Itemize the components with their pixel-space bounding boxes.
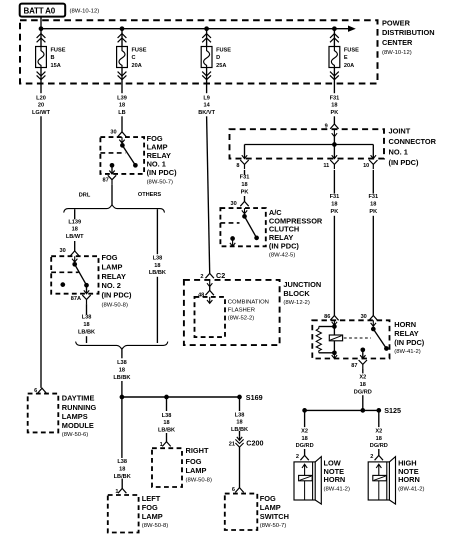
fog lamp relay no. 2 coil divider (dashed)	[51, 271, 78, 273]
svg-text:CENTER: CENTER	[382, 38, 413, 47]
svg-text:(8W-42-5): (8W-42-5)	[269, 253, 295, 259]
svg-text:LEFT: LEFT	[142, 494, 161, 503]
svg-text:COMBINATION: COMBINATION	[228, 299, 269, 305]
fog lamp relay no. 2 spare contact	[60, 282, 65, 287]
fuse E 20A	[329, 29, 359, 84]
svg-text:(IN PDC): (IN PDC)	[147, 168, 178, 177]
svg-text:(8W-41-2): (8W-41-2)	[398, 486, 424, 492]
A/C relay coil divider (dashed)	[220, 222, 239, 224]
svg-text:18: 18	[360, 382, 366, 388]
svg-text:25A: 25A	[216, 63, 226, 69]
svg-text:RUNNING: RUNNING	[62, 403, 97, 412]
svg-text:X2: X2	[359, 375, 366, 381]
node fuse C tap	[120, 26, 125, 31]
horn relay enclosure (dashed)	[312, 320, 389, 358]
svg-text:(IN PDC): (IN PDC)	[394, 338, 425, 347]
wire X2 18 DG/RD (horn relay 87 to splice S125)	[354, 369, 372, 410]
svg-text:30: 30	[59, 248, 65, 254]
pin 9 of joint connector	[325, 123, 339, 144]
svg-text:PK: PK	[331, 209, 339, 215]
label COMBINATION FLASHER (8W-52-2)	[228, 299, 269, 321]
svg-text:CONNECTOR: CONNECTOR	[389, 137, 437, 146]
svg-text:B: B	[51, 55, 55, 61]
svg-text:LAMPS: LAMPS	[62, 412, 88, 421]
svg-text:18: 18	[376, 436, 382, 442]
horn relay coil	[329, 327, 342, 353]
horn relay coil ground stub	[332, 353, 337, 359]
horn relay coil top node	[332, 324, 337, 329]
svg-text:RELAY: RELAY	[394, 329, 418, 338]
wire F31 18 PK (fuse E to joint connector pin 9)	[330, 84, 340, 125]
wire L38 18 LB/BK (merged feed to splice S169)	[113, 349, 130, 397]
svg-text:E: E	[344, 55, 348, 61]
high note horn	[368, 457, 395, 505]
svg-text:20: 20	[38, 103, 44, 109]
wire to fog lamp switch	[239, 447, 241, 488]
svg-text:NO. 1: NO. 1	[389, 147, 408, 156]
svg-text:(8W-52-2): (8W-52-2)	[228, 316, 254, 322]
svg-text:18: 18	[154, 263, 160, 269]
svg-text:(8W-50-7): (8W-50-7)	[260, 523, 286, 529]
svg-text:FOG: FOG	[102, 253, 118, 262]
svg-text:HORN: HORN	[394, 320, 416, 329]
svg-text:BATT A0: BATT A0	[24, 7, 56, 16]
right fog lamp enclosure (dashed)	[152, 448, 182, 487]
wire L38 18 LB/BK (relay 2 pin 87A to merge bracket)	[78, 304, 95, 343]
label FOG LAMP SWITCH (8W-50-7)	[260, 494, 289, 529]
fog lamp switch enclosure (dashed)	[225, 494, 257, 530]
wire L38 18 LB/BK (junction to right fog lamp)	[158, 397, 175, 442]
horn relay coil bottom node	[332, 350, 337, 355]
joint connector no. 1 enclosure (dashed)	[230, 129, 385, 158]
svg-text:LB: LB	[118, 110, 125, 116]
svg-text:20A: 20A	[132, 63, 142, 69]
pin 6 of daytime running lamps module	[34, 388, 46, 394]
svg-text:(8W-50-8): (8W-50-8)	[102, 303, 128, 309]
pin 2 of low note horn	[296, 454, 309, 460]
svg-text:18: 18	[331, 202, 337, 208]
pin 87 of fog lamp relay no. 1	[102, 175, 116, 184]
A/C compressor clutch relay enclosure (dashed)	[220, 208, 265, 246]
wire from BATT A0 to fuse bus	[40, 17, 42, 29]
label HIGH NOTE HORN (8W-41-2)	[398, 458, 424, 492]
wire L38 18 LB/BK (S169 to connector C200)	[231, 397, 248, 437]
svg-text:L38: L38	[162, 413, 172, 419]
fog lamp relay no. 1 output contact	[109, 163, 114, 174]
left fog lamp enclosure (dashed)	[108, 495, 139, 533]
svg-text:21: 21	[229, 441, 235, 447]
svg-text:(8W-50-6): (8W-50-6)	[62, 432, 88, 438]
svg-text:F31: F31	[330, 95, 340, 101]
svg-text:X2: X2	[301, 428, 308, 434]
daytime running lamps module enclosure (dashed)	[28, 394, 59, 433]
wire F31 18 PK (joint connector pin 8 to A/C relay)	[240, 170, 250, 201]
svg-text:HORN: HORN	[398, 475, 420, 484]
svg-text:6: 6	[232, 487, 235, 493]
svg-text:BLOCK: BLOCK	[283, 289, 310, 298]
node horn relay feed	[360, 408, 365, 413]
svg-text:DRL: DRL	[79, 193, 91, 199]
svg-text:BK/VT: BK/VT	[198, 110, 215, 116]
svg-text:30: 30	[230, 201, 236, 207]
svg-text:C200: C200	[246, 438, 263, 447]
pin 8 of joint connector	[236, 145, 248, 170]
power distribution center enclosure (dashed)	[20, 20, 378, 83]
pin 87 of horn relay	[351, 347, 367, 369]
svg-text:DG/RD: DG/RD	[370, 443, 388, 449]
svg-text:(8W-10-12): (8W-10-12)	[382, 50, 412, 56]
label LOW NOTE HORN (8W-41-2)	[324, 458, 350, 492]
svg-text:LAMP: LAMP	[260, 503, 281, 512]
svg-text:(8W-41-2): (8W-41-2)	[394, 349, 420, 355]
svg-text:9: 9	[325, 123, 328, 129]
splice S169	[237, 393, 262, 402]
combination flasher enclosure (dashed)	[195, 297, 226, 337]
svg-text:F31: F31	[330, 194, 340, 200]
fog lamp relay no. 2 contact armature	[72, 262, 89, 288]
svg-text:30: 30	[361, 314, 367, 320]
svg-text:FOG: FOG	[186, 457, 202, 466]
pin 48 of combination flasher	[198, 290, 214, 303]
svg-text:14: 14	[203, 103, 210, 109]
svg-text:(8W-12-2): (8W-12-2)	[283, 300, 309, 306]
svg-text:(8W-50-7): (8W-50-7)	[147, 179, 173, 185]
svg-text:15A: 15A	[51, 63, 61, 69]
svg-text:18: 18	[236, 420, 242, 426]
svg-text:DISTRIBUTION: DISTRIBUTION	[382, 28, 435, 37]
svg-text:FLASHER: FLASHER	[228, 308, 255, 314]
svg-text:2: 2	[296, 454, 299, 460]
connector C200 pin 21	[229, 437, 264, 447]
fuse C 20A	[117, 29, 147, 84]
svg-text:(IN PDC): (IN PDC)	[389, 158, 420, 167]
svg-text:L20: L20	[36, 95, 46, 101]
label POWER DISTRIBUTION CENTER	[382, 18, 435, 56]
bus wire B+ with arrow	[41, 26, 356, 32]
splice row S125	[305, 409, 379, 411]
svg-text:18: 18	[119, 467, 125, 473]
svg-text:L38: L38	[117, 459, 127, 465]
svg-text:18: 18	[241, 182, 247, 188]
svg-text:POWER: POWER	[382, 18, 411, 27]
svg-text:L38: L38	[235, 412, 245, 418]
merge bracket joining L38 wires	[76, 342, 168, 350]
svg-text:L38: L38	[117, 360, 127, 366]
wire L139 18 LB/WT (DRL branch to fog lamp relay no. 2)	[66, 209, 84, 251]
svg-text:(8W-10-12): (8W-10-12)	[70, 8, 100, 14]
svg-text:18: 18	[370, 202, 376, 208]
pin 30 of fog lamp relay no. 2	[59, 248, 78, 262]
label JOINT CONNECTOR NO. 1 (IN PDC)	[389, 126, 437, 167]
svg-text:18: 18	[331, 103, 337, 109]
svg-text:PK: PK	[331, 110, 339, 116]
fog lamp relay no. 1 contact armature	[120, 143, 138, 168]
pin 1 of right fog lamp	[160, 442, 171, 449]
svg-text:LB/BK: LB/BK	[158, 428, 175, 434]
svg-text:S169: S169	[246, 393, 263, 402]
svg-text:L9: L9	[203, 95, 210, 101]
wire L38 18 LB/BK (OTHERS branch to merge bracket)	[149, 209, 166, 343]
svg-text:18: 18	[301, 436, 307, 442]
label LEFT FOG LAMP (8W-50-8)	[142, 494, 168, 529]
label FOG LAMP RELAY NO. 2 (IN PDC) (8W-50-8)	[102, 253, 133, 309]
pin 6 of fog lamp switch	[232, 487, 244, 493]
label A/C COMPRESSOR CLUTCH RELAY (IN PDC) (8W-42-5)	[269, 208, 323, 259]
label OTHERS	[138, 192, 162, 198]
svg-text:FUSE: FUSE	[132, 47, 147, 53]
svg-text:86: 86	[324, 314, 330, 320]
svg-text:2: 2	[200, 274, 203, 280]
svg-text:S125: S125	[384, 406, 401, 415]
svg-text:X2: X2	[375, 428, 382, 434]
svg-text:OTHERS: OTHERS	[138, 192, 162, 198]
svg-text:L139: L139	[68, 219, 81, 225]
svg-text:C2: C2	[216, 271, 225, 280]
svg-text:87: 87	[351, 363, 357, 369]
node fuse D tap	[204, 26, 209, 31]
svg-text:DG/RD: DG/RD	[354, 389, 372, 395]
svg-text:(8W-41-2): (8W-41-2)	[324, 486, 350, 492]
pin 10 of joint connector	[363, 145, 377, 170]
svg-text:(IN PDC): (IN PDC)	[269, 241, 300, 250]
svg-text:DG/RD: DG/RD	[296, 443, 314, 449]
svg-text:L39: L39	[117, 95, 127, 101]
svg-text:FOG: FOG	[260, 494, 276, 503]
fog lamp relay no. 1 enclosure (dashed)	[100, 137, 144, 174]
svg-text:L38: L38	[82, 315, 92, 321]
svg-text:RELAY: RELAY	[102, 272, 126, 281]
svg-text:FUSE: FUSE	[51, 47, 66, 53]
svg-text:D: D	[216, 55, 220, 61]
fog lamp relay no. 2 enclosure (dashed)	[51, 256, 98, 294]
connector C2 pin 2	[200, 271, 225, 280]
svg-text:FOG: FOG	[142, 503, 158, 512]
svg-text:LB/BK: LB/BK	[113, 375, 130, 381]
svg-text:DAYTIME: DAYTIME	[62, 393, 95, 402]
horn relay contact armature	[371, 327, 389, 351]
svg-text:18: 18	[119, 103, 125, 109]
wire X2 18 DG/RD (S125 to high note horn)	[370, 410, 388, 455]
wire L39 18 LB (fuse C to fog lamp relay no. 1)	[117, 84, 127, 132]
svg-text:F31: F31	[368, 194, 378, 200]
label DAYTIME RUNNING LAMPS MODULE (8W-50-6)	[62, 393, 97, 438]
svg-text:C: C	[132, 55, 136, 61]
pin 30 of horn relay	[361, 314, 378, 326]
node L38 feed junction	[120, 395, 125, 400]
splice S125	[376, 406, 401, 415]
fog lamp relay no. 1 coil divider (dashed)	[100, 152, 125, 154]
internal bus of joint connector	[245, 144, 374, 146]
svg-text:JUNCTION: JUNCTION	[283, 280, 321, 289]
svg-text:LB/BK: LB/BK	[149, 270, 166, 276]
svg-text:LAMP: LAMP	[102, 263, 123, 272]
pin 87A of fog lamp relay no. 2	[71, 285, 91, 304]
pin 30 of A/C relay	[230, 201, 248, 214]
svg-text:LB/BK: LB/BK	[78, 329, 95, 335]
svg-text:18: 18	[163, 420, 169, 426]
svg-text:30: 30	[110, 130, 116, 136]
svg-text:18: 18	[119, 368, 125, 374]
svg-text:RIGHT: RIGHT	[186, 446, 209, 455]
horn relay suppression resistor	[316, 327, 334, 353]
pin 11 of joint connector	[323, 145, 338, 170]
pin 1 of left fog lamp	[115, 488, 126, 495]
label DRL	[79, 193, 91, 199]
A/C relay contact armature	[242, 214, 259, 240]
svg-text:(8W-50-8): (8W-50-8)	[142, 523, 168, 529]
wire from C2 into junction block	[207, 280, 212, 291]
pin 30 of fog lamp relay no. 1	[110, 130, 126, 143]
svg-text:FUSE: FUSE	[344, 47, 359, 53]
fuse D 25A	[201, 29, 231, 84]
svg-text:JOINT: JOINT	[389, 126, 411, 135]
svg-text:FUSE: FUSE	[216, 47, 231, 53]
wire from relay 1 pin 87 to branch bracket	[111, 184, 113, 204]
svg-text:8: 8	[236, 163, 239, 169]
svg-text:(8W-50-8): (8W-50-8)	[186, 477, 212, 483]
node joint connector bus junction	[332, 142, 337, 147]
svg-text:HORN: HORN	[324, 475, 346, 484]
branch bracket DRL/OTHERS	[64, 205, 165, 213]
svg-text:PK: PK	[241, 189, 249, 195]
wire L20 20 LG/WT (fuse B to daytime running lamps module)	[32, 84, 51, 388]
wire F31 18 PK (joint connector pin 11 to horn relay pin 86)	[330, 170, 340, 316]
svg-text:NO. 2: NO. 2	[102, 281, 121, 290]
node fuse E tap	[332, 26, 337, 31]
svg-text:20A: 20A	[344, 63, 354, 69]
svg-text:18: 18	[83, 322, 89, 328]
low note horn	[294, 457, 321, 505]
label RIGHT FOG LAMP (8W-50-8)	[186, 446, 212, 483]
svg-text:L38: L38	[153, 255, 163, 261]
label HORN RELAY (IN PDC) (8W-41-2)	[394, 320, 425, 355]
svg-text:18: 18	[72, 227, 78, 233]
label JUNCTION BLOCK (8W-12-2)	[283, 280, 321, 306]
svg-text:87: 87	[102, 178, 108, 184]
svg-text:SWITCH: SWITCH	[260, 512, 289, 521]
junction block enclosure (dashed)	[184, 280, 280, 345]
node right fog lamp tap	[164, 395, 169, 400]
svg-text:10: 10	[363, 163, 369, 169]
svg-text:LB/WT: LB/WT	[66, 234, 84, 240]
svg-text:LAMP: LAMP	[142, 512, 163, 521]
svg-text:MODULE: MODULE	[62, 421, 94, 430]
svg-text:F31: F31	[240, 175, 250, 181]
svg-text:87A: 87A	[71, 296, 81, 302]
label FOG LAMP RELAY NO. 1 (IN PDC) (8W-50-7)	[147, 134, 178, 185]
wire X2 18 DG/RD (S125 to low note horn)	[296, 410, 314, 455]
wire L9 14 BK/VT (fuse D to connector C2)	[198, 84, 215, 274]
label (8W-10-12) for BATT A0	[70, 8, 100, 14]
fuse B 15A	[36, 29, 66, 84]
svg-text:2: 2	[370, 454, 373, 460]
battery feed BATT A0	[20, 4, 65, 17]
svg-text:11: 11	[323, 163, 329, 169]
A/C relay lower pin stub	[230, 236, 235, 246]
svg-text:PK: PK	[369, 209, 377, 215]
svg-text:(IN PDC): (IN PDC)	[102, 291, 133, 300]
horn relay armature linkage (dashed)	[344, 337, 371, 339]
pin 2 of high note horn	[370, 454, 383, 460]
node fuse B tap	[39, 26, 44, 31]
wire F31 18 PK (joint connector pin 10 to horn relay pin 30)	[368, 170, 378, 316]
wire splice row to S169	[122, 396, 240, 398]
node low note horn tap	[302, 408, 307, 413]
svg-text:LG/WT: LG/WT	[32, 110, 51, 116]
wire L38 18 LB/BK (junction to left fog lamp)	[114, 397, 131, 488]
pin 86 of horn relay	[324, 314, 338, 325]
svg-text:LAMP: LAMP	[186, 466, 207, 475]
